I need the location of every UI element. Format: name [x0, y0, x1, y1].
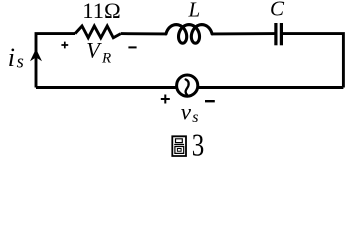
svg-text:L: L — [188, 0, 201, 22]
svg-text:s: s — [192, 109, 198, 126]
svg-text:R: R — [101, 51, 111, 67]
capacitor C right plate — [280, 23, 283, 45]
current arrow i_s head — [30, 49, 42, 62]
wire inductor to capacitor — [212, 32, 275, 35]
svg-text:s: s — [17, 52, 24, 72]
capacitor C left plate — [274, 23, 277, 45]
wire left side and top-left segment — [36, 34, 75, 88]
svg-text:11Ω: 11Ω — [82, 0, 120, 23]
caption tu middle horizontal stroke — [174, 144, 184, 146]
caption tu bottom inner tiny box — [177, 149, 181, 152]
svg-text:v: v — [181, 100, 192, 125]
bottom wire left segment — [36, 86, 176, 89]
minus sign near source — [205, 100, 215, 102]
AC source vs circle — [177, 75, 198, 96]
caption tu inner top small box — [176, 139, 183, 143]
plus sign near resistor — [61, 42, 68, 49]
minus sign near resistor — [128, 46, 136, 48]
svg-text:V: V — [86, 38, 102, 63]
inductor L coil — [166, 25, 212, 44]
resistor R1 11 ohm zigzag — [75, 26, 121, 38]
svg-text:3: 3 — [192, 128, 204, 162]
wire capacitor to top-right corner and right side — [283, 34, 343, 88]
plus sign near source — [161, 95, 170, 104]
svg-text:i: i — [8, 43, 15, 72]
caption tu bottom box — [175, 147, 184, 154]
AC source squiggle — [186, 79, 189, 94]
svg-text:C: C — [270, 0, 285, 21]
wire resistor to inductor — [121, 32, 167, 35]
caption character tu (figure) outer box — [172, 136, 186, 156]
bottom wire right segment — [199, 86, 344, 89]
